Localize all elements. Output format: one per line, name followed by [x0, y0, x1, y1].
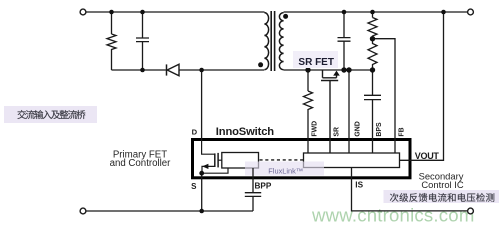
transistor Q1 gate wire [218, 159, 222, 161]
FluxLink highlight box [245, 162, 324, 176]
wire: top-right rail [284, 11, 468, 13]
label box: SR FET [293, 51, 338, 68]
diode D1 [166, 64, 168, 75]
svg-text:IS: IS [355, 181, 363, 190]
wire: diode to transformer [179, 69, 264, 71]
wire: VOUT [400, 12, 444, 160]
transistor Q1 channel bar [214, 153, 216, 167]
resistor R4 FWD [304, 70, 313, 153]
terminal top-right [468, 9, 474, 15]
svg-text:SR FET: SR FET [298, 57, 334, 68]
terminal top-left [80, 9, 86, 15]
svg-text:VOUT: VOUT [415, 151, 440, 161]
capacitor C2 output [338, 12, 351, 70]
junction dot divider tap [370, 36, 375, 41]
capacitor C1 input [136, 12, 149, 70]
secondary controller box [304, 153, 400, 168]
terminal bottom-right [468, 208, 474, 214]
capacitor C4 BPP [245, 168, 261, 211]
junction dots node line [305, 67, 310, 72]
junction dots top rail left [109, 10, 114, 15]
wire: S pin drop [201, 173, 203, 211]
resistor R2 divider upper [368, 12, 377, 39]
junction dot Q1 source [199, 171, 204, 176]
svg-text:InnoSwitch: InnoSwitch [216, 126, 274, 138]
primary controller box [222, 153, 259, 169]
svg-text:GND: GND [355, 121, 362, 136]
label box: AC input (Chinese) [4, 106, 97, 123]
wire: D pin drop [201, 70, 203, 139]
transistor Q1 primary FET drain [202, 139, 215, 154]
svg-text:BPS: BPS [376, 122, 383, 137]
terminal bottom-left [80, 208, 86, 214]
IC U1 InnoSwitch body [193, 140, 411, 178]
wire: GND drop [348, 70, 350, 153]
transformer T1 primary winding [264, 13, 268, 70]
junction dot bottom rail [199, 209, 204, 214]
svg-text:Control IC: Control IC [421, 179, 463, 190]
svg-text:www.cntronics.com: www.cntronics.com [311, 205, 475, 226]
svg-text:BPP: BPP [255, 181, 272, 190]
junction dots top rail right [342, 10, 347, 15]
arrow of Q1 source [202, 164, 208, 169]
resistor R1 input [107, 12, 116, 70]
IC U1 border [193, 140, 411, 178]
wire: IS down and right [352, 168, 468, 211]
transformer T1 secondary winding [279, 13, 283, 70]
transistor Q1 gate bar [217, 153, 219, 168]
capacitor C3 BPS [364, 70, 381, 153]
junction dots bottom input [140, 68, 145, 73]
wire: bottom of input section [112, 69, 166, 71]
svg-text:FB: FB [399, 127, 406, 136]
svg-text:S: S [191, 182, 197, 191]
wire: FB tap [373, 39, 396, 153]
resistor R3 divider lower [368, 39, 377, 70]
transformer T1 core [271, 11, 274, 71]
dashed FluxLink coupling [260, 159, 304, 161]
svg-text:SR: SR [334, 127, 341, 137]
svg-text:D: D [192, 128, 198, 137]
wire: secondary return node line [284, 69, 373, 71]
svg-text:and Controller: and Controller [110, 158, 172, 169]
label box: secondary feedback (Chinese) [384, 190, 500, 203]
wire: top-left rail [86, 11, 265, 13]
transistor Q2 SR FET [321, 70, 338, 153]
arrow of Q2 SR FET [333, 71, 340, 76]
wire: bottom-left rail [86, 210, 253, 212]
svg-text:FluxLink™: FluxLink™ [268, 167, 303, 176]
transistor Q1 source path [202, 166, 228, 173]
transformer polarity dots [258, 62, 263, 67]
svg-text:FWD: FWD [312, 121, 319, 137]
